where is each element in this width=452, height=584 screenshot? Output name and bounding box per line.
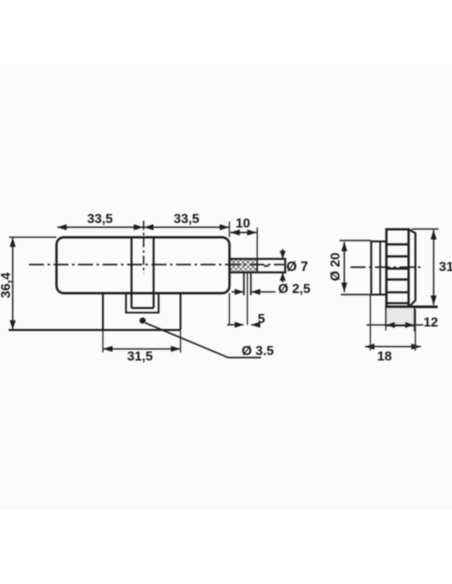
dim 18 extensions [369,295,371,351]
pin centerline [246,273,248,325]
horizontal centerline left view [29,264,284,266]
dim 10 right extension [256,228,258,259]
dim 12 line [367,324,424,326]
dim 31 vertical line [433,230,435,305]
body right extension line top [228,222,230,238]
dim diameter 20 extensions [340,240,372,242]
dim 31,5 extensions [102,331,104,353]
dim 33,5 left line [57,226,143,228]
svg-text:Ø 7: Ø 7 [286,259,308,274]
knob ridge 4 [386,278,408,280]
dim 36,4 top extension [9,236,57,238]
svg-text:Ø 3.5: Ø 3.5 [242,343,274,358]
dim 12 extensions [385,326,387,331]
foot right edge [180,293,182,330]
knob ridge 2 [386,255,408,257]
shaft hatch [230,259,258,272]
knob centerline [351,266,422,268]
screw hole dot [140,318,146,324]
svg-text:18: 18 [377,349,392,364]
dim 33,5 right line [144,226,229,228]
dim diameter 20 vertical line [343,242,345,292]
spindle tab gray [386,307,414,325]
body right extension below [228,293,230,325]
photo area background [0,64,452,510]
cam channel right line [153,237,155,308]
shaft hatch end line [256,259,258,273]
svg-text:31,5: 31,5 [127,348,153,363]
svg-text:31: 31 [439,259,452,274]
knob chamfer face [409,229,416,306]
dim 18 line [365,346,421,348]
dim 36,4 vertical line [12,237,14,329]
dim 10 line [230,232,256,234]
dim 5 line left [227,324,243,326]
notch outer U [126,293,159,312]
dim 5 line right [251,324,256,326]
svg-text:33,5: 33,5 [174,211,200,226]
knob ridge 5 [386,291,408,293]
svg-text:10: 10 [236,216,251,231]
knob neck [371,241,386,294]
dim 31 top extension [412,228,439,230]
svg-text:Ø 20: Ø 20 [327,253,342,282]
svg-text:Ø 2,5: Ø 2,5 [278,281,310,296]
dim diameter 7 arrows [282,249,284,259]
shaft outline [230,259,286,273]
svg-text:33,5: 33,5 [87,211,113,226]
notch inner bottom [132,307,154,309]
svg-text:12: 12 [423,314,438,329]
dim 31,5 line [103,348,180,350]
pin right line [250,272,252,295]
knob ridge 1 [386,243,408,245]
cylinder body [57,237,230,293]
svg-text:36,4: 36,4 [0,272,13,298]
knob ridge 6 [386,302,408,304]
shaft center dot [264,265,269,267]
knob grip outline [386,229,408,307]
foot left edge [102,293,104,330]
cam channel left line [131,237,133,308]
dim diameter 2,5 arrows [232,291,244,293]
svg-text:5: 5 [258,311,265,326]
pin left line [243,272,245,295]
knob bottom thick line [386,305,438,308]
knob ridge 3 [386,268,408,270]
neck inner line [379,241,381,294]
leader line to hole label [145,323,261,358]
foot bottom line [9,329,181,331]
cam vertical dash-dot centerline [143,221,145,274]
